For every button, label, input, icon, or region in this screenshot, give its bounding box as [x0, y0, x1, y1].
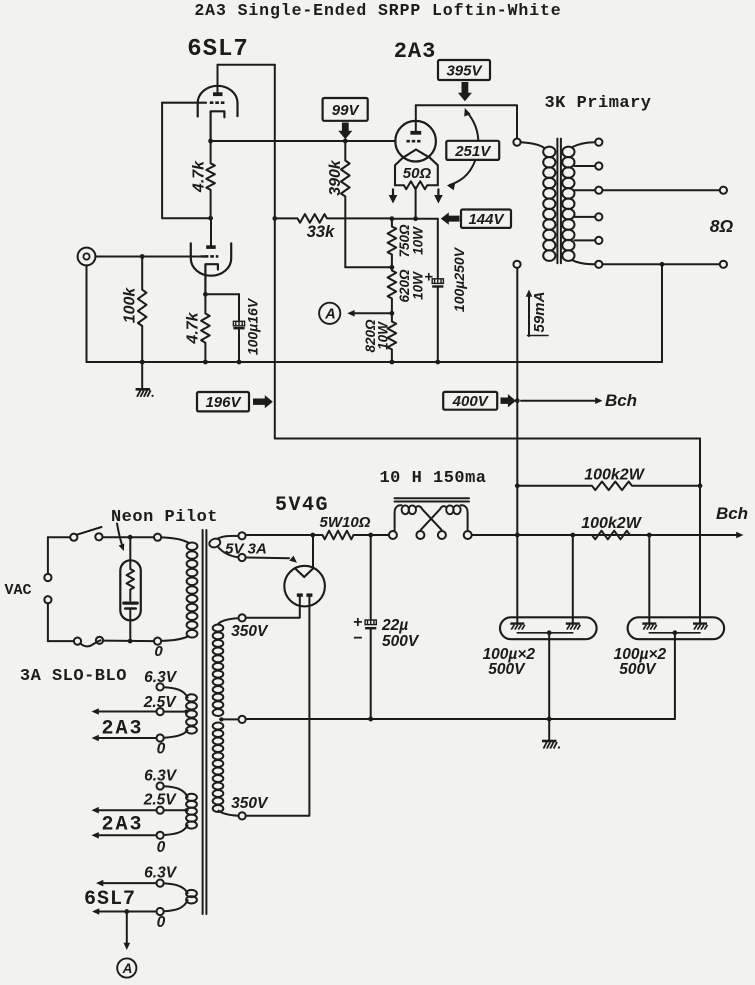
wire first-stage feed drop — [699, 439, 701, 486]
output terminal bottom — [720, 261, 727, 268]
node 33k left on B+ line — [272, 216, 277, 221]
svg-text:251V: 251V — [454, 143, 492, 160]
svg-text:2A3: 2A3 — [394, 39, 437, 64]
triode 6SL7a envelope — [198, 86, 238, 117]
choke terminal 3 — [438, 531, 446, 539]
node A branch — [124, 909, 129, 914]
xfmr primary terminal top — [154, 534, 161, 541]
label 33k — [307, 223, 335, 241]
PT HV winding lower — [213, 723, 224, 813]
wire primary bottom lead — [162, 636, 189, 641]
svg-text:3K Primary: 3K Primary — [544, 94, 651, 113]
triode 6SL7b cathode — [205, 264, 218, 294]
resistor 390k — [341, 141, 350, 267]
capacitor C 100u250V — [424, 219, 443, 362]
label 8ohm — [710, 216, 734, 236]
node B row x517 — [515, 533, 520, 538]
tube 2A3 plate — [410, 105, 421, 134]
terminal 2.5V 2A3-1 — [157, 708, 164, 715]
label 6SL7 heater — [84, 888, 136, 911]
5V terminal bottom — [238, 554, 245, 561]
capacitor can2 100ux2 case — [628, 617, 725, 639]
tube 5V4G envelope — [284, 566, 325, 607]
label 6.3V 2A3-2 — [144, 768, 178, 785]
wire 6.3V lead 6SL7 — [164, 883, 188, 894]
svg-text:2.5V: 2.5V — [143, 792, 178, 809]
terminal 6.3V 2A3-2 — [157, 782, 164, 789]
svg-text:4.7k: 4.7k — [191, 160, 208, 193]
voltage box 99V — [323, 98, 368, 121]
VAC terminal top — [44, 574, 51, 581]
wire HV top lead — [219, 618, 238, 623]
wire SRPP feedback loop (grid a to plate b) — [162, 103, 211, 219]
triode 6SL7b envelope — [191, 243, 231, 275]
node B row can1 — [570, 533, 575, 538]
tube 2A3 grid — [407, 140, 423, 143]
svg-text:6.3V: 6.3V — [144, 865, 178, 882]
svg-text:196V: 196V — [205, 394, 242, 411]
wire 0V lead 2A3-1 — [164, 730, 188, 738]
svg-text:100µ250V: 100µ250V — [451, 246, 467, 312]
arrow 6.3V 6SL7 — [96, 880, 156, 887]
arrow 144V left — [441, 212, 460, 224]
arrow 0V 2A3-1 — [92, 735, 156, 742]
capacitor C 22u 500V — [365, 535, 376, 719]
label 6.3V 6SL7 — [144, 865, 178, 882]
terminal 6.3V 6SL7 — [157, 880, 164, 887]
wire first-stage feed horizontal — [275, 438, 700, 440]
label 0 2A3-2 — [157, 839, 166, 856]
node rect output — [310, 533, 315, 538]
svg-text:5V4G: 5V4G — [275, 494, 329, 517]
node cap bottom — [237, 360, 242, 365]
wire secondary mid tap to output — [603, 189, 719, 191]
OPT secondary tap wires — [573, 142, 595, 264]
ground (input) — [136, 389, 154, 397]
svg-text:4.7k: 4.7k — [185, 311, 202, 344]
wire 6.3V lead 2A3-1 — [164, 687, 188, 698]
arrow 2.5V 2A3-2 — [92, 807, 156, 814]
wire AC top — [48, 536, 153, 538]
svg-text:350V: 350V — [231, 795, 269, 812]
PT 5V winding — [208, 536, 238, 557]
arrow 2.5V 2A3-1 — [92, 708, 156, 715]
svg-text:0: 0 — [157, 741, 166, 758]
svg-text:2A3: 2A3 — [101, 814, 143, 837]
label can2 — [614, 646, 667, 678]
label 22u plus — [353, 614, 362, 647]
node divider top — [390, 216, 395, 221]
label 6.3V 2A3-1 — [144, 669, 178, 686]
triode 6SL7b plate — [206, 218, 216, 249]
label 100u16V — [245, 297, 261, 355]
PT primary winding — [187, 543, 198, 638]
svg-text:0: 0 — [154, 643, 163, 660]
label 100u250V — [451, 246, 467, 312]
label 100k2W lower — [581, 515, 642, 532]
label 0 primary — [154, 643, 163, 660]
svg-text:VAC: VAC — [4, 582, 31, 599]
voltage box 196V — [197, 392, 249, 411]
wire cathode node row — [392, 218, 438, 220]
triode 6SL7b grid — [201, 255, 218, 257]
node A circle (heater) — [117, 958, 136, 977]
label 350V bottom — [231, 795, 269, 812]
can2 common — [649, 630, 700, 719]
label 620ohm 10W — [397, 269, 426, 303]
choke coil right — [421, 505, 468, 530]
wire jack sleeve to ground rail — [86, 265, 88, 362]
arrow 0V 2A3-2 — [92, 832, 156, 839]
wire terminal to primary — [521, 142, 543, 147]
wire ground rail (top section) — [87, 361, 663, 363]
label Bch upper — [605, 391, 637, 410]
node rail ground — [547, 717, 552, 722]
label 50ohm — [403, 165, 432, 182]
svg-text:Bch: Bch — [716, 504, 748, 523]
label 2.5V 2A3-2 — [143, 792, 178, 809]
node neon bottom — [128, 639, 133, 644]
svg-text:22µ: 22µ — [381, 617, 408, 634]
arrow filament left down — [389, 189, 398, 204]
wire VAC left top — [47, 537, 49, 573]
label Bch right — [716, 504, 748, 523]
label 0 6SL7 — [157, 914, 166, 931]
svg-text:6.3V: 6.3V — [144, 768, 178, 785]
ground (psu) — [542, 741, 560, 749]
wire secondary bottom to output — [603, 263, 719, 265]
svg-text:10W: 10W — [376, 321, 391, 350]
svg-text:500V: 500V — [619, 661, 657, 678]
label VAC — [4, 582, 31, 599]
node 22u junction — [368, 533, 373, 538]
label 5W10ohm — [320, 514, 371, 531]
node divider bottom — [390, 360, 395, 365]
svg-text:10W: 10W — [411, 226, 426, 255]
node A circle — [319, 303, 340, 324]
HV center tap terminal — [239, 716, 246, 723]
label 2A3 second — [101, 814, 143, 837]
node 6SL7a cathode junction — [208, 139, 213, 144]
svg-text:Bch: Bch — [605, 391, 637, 410]
can2 left section — [642, 535, 657, 630]
svg-text:10 H 150ma: 10 H 150ma — [379, 469, 486, 488]
svg-text:33k: 33k — [307, 223, 335, 241]
label 22u 500V — [381, 617, 420, 650]
wire 0V lead 2A3-2 — [164, 825, 188, 835]
voltage box 395V — [438, 60, 490, 80]
resistor 620ohm 10W — [388, 267, 397, 313]
node rail 22u — [368, 717, 373, 722]
can2 right section — [693, 486, 708, 630]
resistor 5W10ohm — [317, 531, 389, 540]
arrow 59mA — [526, 290, 533, 337]
svg-text:390k: 390k — [327, 159, 344, 196]
wire VAC left bottom — [47, 604, 49, 641]
label 59mA — [528, 292, 549, 336]
resistor 100k2W (lower) — [577, 531, 650, 540]
tube 5V4G plate right — [306, 593, 312, 596]
wire 5V bottom to filament — [246, 556, 297, 563]
node 100k upper right — [698, 483, 703, 488]
svg-text:100k2W: 100k2W — [584, 467, 645, 484]
PT heater winding 6SL7 — [186, 890, 197, 904]
PT heater winding 2A3-2 — [186, 794, 197, 829]
svg-text:59mA: 59mA — [531, 292, 548, 333]
terminal 0V 6SL7 — [157, 908, 164, 915]
label 4.7k upper — [191, 160, 208, 193]
5V terminal top — [238, 532, 245, 539]
node 250V-cap bottom — [435, 360, 440, 365]
choke terminal 4 — [464, 531, 472, 539]
choke terminal 1 — [389, 531, 397, 539]
label 820ohm 10W — [363, 319, 391, 353]
wire 6SL7a plate to B+ line — [218, 64, 275, 66]
wire psu common rail — [246, 718, 675, 720]
tube 2A3 envelope — [395, 121, 436, 162]
wire 50ohm center tap — [415, 187, 417, 218]
label can1 — [483, 646, 536, 678]
svg-text:0: 0 — [157, 914, 166, 931]
can1 right section — [566, 535, 581, 630]
label 0 2A3-1 — [157, 741, 166, 758]
switch bottom pole (fuse) — [74, 637, 103, 647]
tube 5V4G filament — [295, 568, 313, 577]
node A arrow — [347, 310, 392, 317]
OPT primary winding — [543, 147, 555, 261]
wire 100k to ground — [141, 362, 143, 389]
node 4.7k bottom — [203, 360, 208, 365]
OPT core — [557, 139, 561, 264]
PT HV winding upper — [213, 625, 224, 717]
node input-grid junction — [140, 254, 145, 259]
wire 0V lead 6SL7 — [164, 900, 188, 912]
wire filament to B row — [312, 535, 314, 568]
resistor 4.7k cathode (lower) — [201, 294, 210, 362]
svg-text:2.5V: 2.5V — [143, 694, 178, 711]
svg-text:99V: 99V — [332, 102, 361, 119]
arrow 196V right — [253, 395, 273, 408]
svg-text:6SL7: 6SL7 — [187, 36, 249, 63]
svg-text:500V: 500V — [488, 661, 526, 678]
svg-text:50Ω: 50Ω — [403, 165, 432, 182]
tube 2A3 filament — [395, 150, 438, 186]
svg-text:5V 3A: 5V 3A — [225, 541, 267, 558]
arrow to Bch (upper) — [521, 397, 603, 404]
wire HV bottom lead — [219, 811, 238, 816]
resistor 750ohm 10W — [388, 219, 397, 268]
capacitor can1 100ux2 case — [500, 617, 597, 639]
node divider mid2 (A tap) — [390, 311, 395, 316]
wire secondary return to rail — [661, 264, 663, 362]
resistor 100k grid — [138, 257, 147, 363]
node neon top — [128, 535, 133, 540]
svg-text:6SL7: 6SL7 — [84, 888, 136, 911]
OPT secondary winding — [562, 147, 574, 261]
node secondary bottom junction — [660, 262, 665, 267]
capacitor C 100u16V — [233, 294, 244, 362]
wire rail to ground — [548, 719, 550, 741]
resistor 820ohm 10W — [388, 313, 397, 362]
svg-text:A: A — [324, 307, 335, 323]
label 390k — [327, 159, 344, 196]
svg-text:100k: 100k — [122, 287, 139, 324]
PT heater winding 2A3-1 — [186, 694, 197, 733]
HV terminal top — [239, 614, 246, 621]
tube label 2A3 — [394, 39, 437, 64]
wire plate right to 350V — [246, 597, 309, 816]
label 4.7k lower — [185, 311, 202, 344]
label 10H 150ma — [379, 469, 486, 488]
voltage box 400V — [443, 392, 497, 410]
wire 390k bottom to divider — [345, 266, 392, 268]
VAC terminal bottom — [44, 596, 51, 603]
arrow 0V 6SL7 — [92, 908, 156, 915]
choke terminal 2 — [416, 531, 424, 539]
triode 6SL7a cathode — [211, 111, 225, 141]
svg-text:144V: 144V — [468, 211, 505, 228]
OPT secondary tap terminals — [595, 139, 602, 268]
PT core — [203, 530, 207, 914]
choke core — [395, 498, 470, 501]
svg-text:0: 0 — [157, 839, 166, 856]
svg-text:350V: 350V — [231, 623, 269, 640]
wire 2.5V tap 2A3-2 — [164, 808, 188, 812]
wire jack to 6SL7 grid — [95, 256, 201, 258]
arrow 99V down — [338, 123, 352, 140]
svg-text:3A SLO-BLO: 3A SLO-BLO — [20, 667, 127, 686]
wire 2A3 plate to OPT — [416, 105, 517, 138]
label 2A3 first — [101, 718, 143, 741]
node divider mid1 — [390, 265, 395, 270]
label 2.5V 2A3-1 — [143, 694, 178, 711]
triode 6SL7a plate — [213, 65, 223, 96]
arrow 395V down — [458, 82, 472, 101]
svg-text:100k2W: 100k2W — [581, 515, 642, 532]
OPT primary bottom terminal — [513, 261, 520, 268]
label Neon Pilot — [111, 508, 218, 527]
wire 6.3V lead 2A3-2 — [164, 786, 188, 798]
node 100k upper left — [515, 483, 520, 488]
svg-text:2A3 Single-Ended SRPP Loftin-W: 2A3 Single-Ended SRPP Loftin-White — [194, 1, 561, 20]
voltage box 144V — [461, 210, 511, 229]
choke coil left — [395, 505, 442, 530]
input jack J1 — [78, 248, 96, 266]
svg-text:500V: 500V — [382, 633, 420, 650]
wire cathode to bypass cap — [205, 293, 239, 295]
svg-text:8Ω: 8Ω — [710, 216, 734, 236]
wire plate left to 350V — [246, 597, 299, 618]
node B row can2 — [647, 533, 652, 538]
resistor 100k2W (upper) — [517, 482, 700, 491]
voltage box 251V — [446, 141, 499, 160]
svg-text:2A3: 2A3 — [101, 718, 143, 741]
HV terminal bottom — [239, 812, 246, 819]
tube 5V4G plate left — [297, 593, 303, 596]
can1 common — [517, 630, 573, 719]
arrow filament right down — [434, 189, 443, 204]
neon lamp N1 — [120, 537, 141, 641]
svg-text:100µ16V: 100µ16V — [245, 297, 261, 355]
wire main B row — [472, 534, 739, 536]
triode 6SL7a grid — [162, 102, 225, 104]
terminal 6.3V 2A3-1 — [157, 683, 164, 690]
wire 2.5V tap 2A3-1 — [164, 710, 188, 714]
label 100k — [122, 287, 139, 324]
arrow main B to Bch — [736, 532, 743, 539]
label 3A SLO-BLO — [20, 667, 127, 686]
wire AC bottom — [48, 640, 153, 643]
wire 6SL7 output to 2A3 grid — [211, 140, 396, 142]
svg-text:Neon Pilot: Neon Pilot — [111, 508, 218, 527]
curved arrow 251V — [447, 108, 479, 190]
svg-text:400V: 400V — [452, 393, 490, 410]
label 3K Primary — [544, 94, 651, 113]
svg-text:+: + — [424, 269, 433, 286]
resistor 4.7k (upper) — [206, 141, 215, 218]
potentiometer 50ohm hum — [395, 181, 438, 189]
node plate b junction — [208, 216, 213, 221]
wire 5V to rectifier junction — [246, 534, 317, 536]
switch top pole — [70, 527, 102, 541]
terminal 0V 2A3-2 — [157, 832, 164, 839]
wire HV center tap — [219, 717, 238, 721]
label 750ohm 10W — [397, 224, 426, 258]
node tap junction — [413, 216, 418, 221]
label 5V4G — [275, 494, 329, 517]
terminal 0V 2A3-1 — [157, 734, 164, 741]
arrow to A — [124, 912, 131, 951]
resistor 33k — [275, 214, 392, 223]
tube label 6SL7 — [187, 36, 249, 63]
wire first-stage B+ vertical — [274, 65, 276, 439]
can1 left section — [510, 617, 525, 629]
arrow 400V right — [501, 394, 516, 407]
title text — [194, 1, 561, 20]
label 5V 3A — [225, 541, 267, 558]
svg-text:6.3V: 6.3V — [144, 669, 178, 686]
label 100k2W upper — [584, 467, 645, 484]
svg-text:−: − — [353, 630, 362, 647]
node 6SL7b cathode — [203, 292, 208, 297]
wire primary top lead — [162, 537, 189, 542]
wire B+ vertical — [516, 269, 518, 618]
svg-text:A: A — [122, 961, 133, 976]
xfmr primary terminal bottom — [154, 638, 161, 645]
OPT primary top terminal — [513, 139, 520, 146]
svg-text:+: + — [353, 614, 362, 631]
label 350V top — [231, 623, 269, 640]
node 390k top — [343, 139, 348, 144]
terminal 2.5V 2A3-2 — [157, 807, 164, 814]
node Bch takeoff — [515, 398, 520, 403]
output terminal top — [720, 187, 727, 194]
neon pointer arrow — [117, 524, 124, 552]
node 100k bottom — [140, 360, 145, 365]
svg-text:395V: 395V — [446, 62, 483, 79]
